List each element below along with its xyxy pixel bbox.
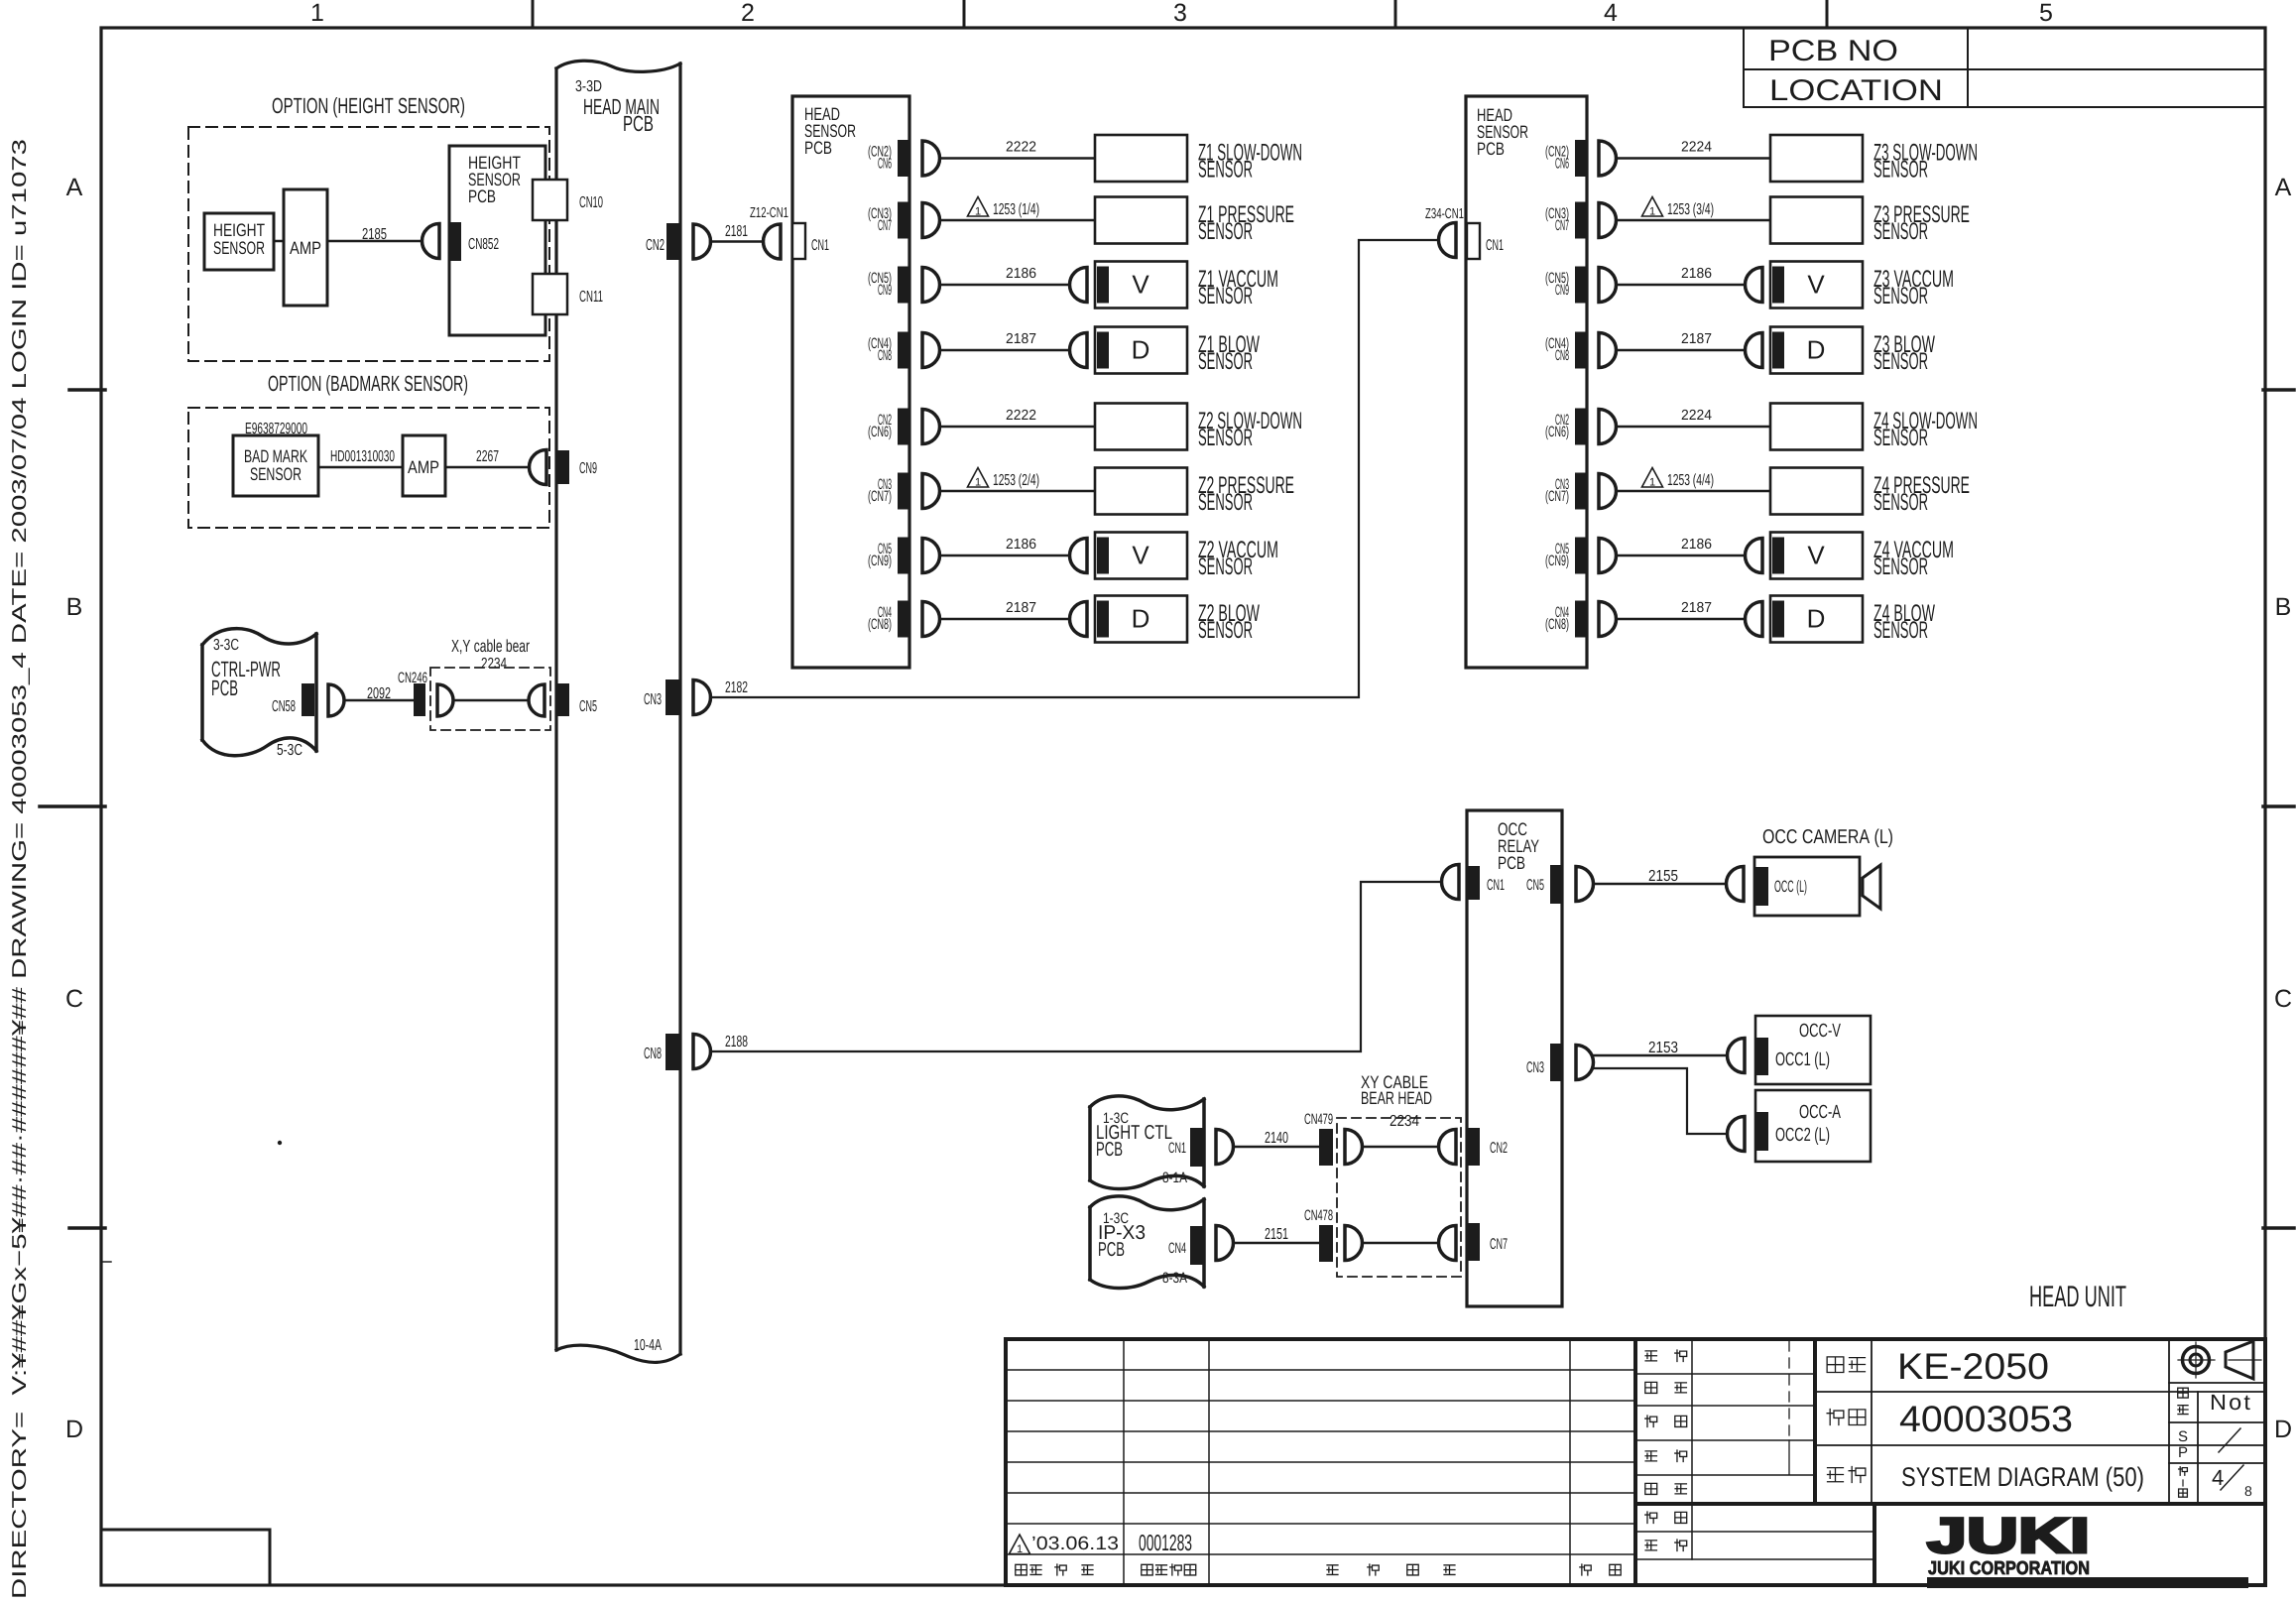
svg-text:2186: 2186	[1006, 537, 1036, 553]
svg-text:KE-2050: KE-2050	[1897, 1346, 2049, 1387]
svg-text:SENSOR: SENSOR	[1873, 283, 1928, 309]
connector plug Z4 pressure	[1599, 474, 1617, 509]
svg-text:1253 (4/4): 1253 (4/4)	[1667, 472, 1714, 489]
svg-text:4: 4	[1604, 0, 1618, 27]
svg-text:DIRECTORY= V:¥##¥Gx−5¥##·##·#: DIRECTORY= V:¥##¥Gx−5¥##·##·######¥## DR…	[9, 139, 31, 1599]
xy cable bear head 2234 box	[1337, 1072, 1461, 1277]
svg-text:HD001310030: HD001310030	[330, 448, 395, 465]
connector plug at OCC1	[1728, 1039, 1745, 1073]
label Z1 blow sensor	[1198, 331, 1260, 375]
sensor box Z4 pressure	[1770, 468, 1863, 515]
svg-text:3: 3	[1173, 0, 1187, 27]
title block approval rows	[1636, 1339, 2265, 1585]
ip-x3 pcb	[1090, 1196, 1204, 1289]
svg-text:SENSOR: SENSOR	[1198, 425, 1253, 451]
sensor box Z4 slow-down	[1770, 404, 1863, 450]
svg-text:D: D	[1807, 335, 1826, 365]
wire in cable bear	[453, 699, 529, 702]
wire 1253 (4/4) Z4 pressure	[1617, 468, 1771, 492]
label Z3 pressure sensor	[1873, 201, 1970, 245]
svg-text:V: V	[1132, 270, 1149, 300]
svg-text:SENSOR: SENSOR	[1873, 425, 1928, 451]
connector plug Z2 blow	[922, 602, 940, 637]
svg-text:8-1A: 8-1A	[1162, 1170, 1187, 1186]
connector CN1 (head sensor pcb right)	[1467, 223, 1504, 259]
svg-text:SENSOR: SENSOR	[1198, 554, 1253, 580]
title block model KE-2050	[1815, 1339, 2265, 1502]
svg-text:SENSOR: SENSOR	[1198, 283, 1253, 309]
svg-text:CN1: CN1	[1487, 877, 1505, 894]
svg-text:OCC CAMERA (L): OCC CAMERA (L)	[1762, 826, 1893, 848]
svg-text:SYSTEM DIAGRAM (50): SYSTEM DIAGRAM (50)	[1901, 1462, 2144, 1492]
svg-text:CN9: CN9	[878, 282, 892, 299]
svg-text:D: D	[2274, 1416, 2292, 1443]
svg-text:CN7: CN7	[878, 217, 892, 234]
svg-text:2186: 2186	[1681, 537, 1712, 553]
connector (CN5)/CN9 Z1 vaccum	[868, 267, 910, 304]
svg-text:A: A	[2275, 174, 2292, 201]
svg-text:1: 1	[1017, 1543, 1023, 1555]
svg-text:C: C	[2274, 985, 2292, 1013]
projection symbols	[2178, 1341, 2261, 1379]
connector plug Z2 vaccum	[922, 539, 940, 573]
svg-text:1253 (1/4): 1253 (1/4)	[993, 201, 1039, 218]
connector plug to CN852	[423, 224, 440, 259]
height sensor block	[204, 213, 274, 270]
svg-text:B: B	[66, 593, 83, 621]
wire 1253 (3/4) Z3 pressure	[1617, 197, 1771, 221]
label Z3 vaccum sensor	[1873, 266, 1954, 309]
svg-text:CN9: CN9	[579, 460, 597, 477]
svg-text:CN479: CN479	[1304, 1111, 1333, 1128]
label Z2 vaccum sensor	[1198, 537, 1278, 580]
sensor box Z4 blow	[1746, 596, 1864, 643]
connector CN5 (head main pcb)	[556, 683, 597, 716]
connector CN5/(CN9) Z4 vaccum	[1545, 538, 1588, 574]
sensor box Z1 pressure	[1095, 197, 1187, 244]
sensor box Z2 slow-down	[1095, 404, 1187, 450]
connector plug at CN3	[693, 680, 711, 715]
svg-text:AMP: AMP	[408, 457, 439, 477]
svg-text:SENSOR: SENSOR	[1198, 218, 1253, 245]
connector CN246	[398, 670, 427, 716]
connector CN1 (light ctl)	[1168, 1128, 1204, 1167]
svg-text:PCB: PCB	[468, 186, 496, 206]
ctrl-pwr pcb	[202, 629, 316, 759]
connector plug Z3 vaccum	[1599, 268, 1617, 303]
svg-text:PCB NO: PCB NO	[1768, 35, 1898, 67]
wire 2151	[1234, 1226, 1320, 1243]
svg-text:CN2: CN2	[1490, 1140, 1508, 1157]
wire 2224 Z3 slow-down	[1617, 140, 1771, 159]
svg-text:D: D	[1807, 604, 1826, 634]
connector CN3 (head main pcb)	[644, 679, 679, 715]
wire 2187 Z2 blow	[940, 600, 1070, 619]
connector CN2/(CN6) Z4 slow-down	[1545, 409, 1588, 445]
wire 2181	[710, 223, 764, 242]
svg-text:2155: 2155	[1648, 868, 1678, 885]
sensor box Z1 vaccum	[1070, 262, 1188, 308]
svg-text:CN8: CN8	[644, 1046, 662, 1062]
wire 2187 Z4 blow	[1617, 600, 1746, 619]
svg-text:1253 (3/4): 1253 (3/4)	[1667, 201, 1714, 218]
connector (CN3)/CN7 Z3 pressure	[1545, 202, 1588, 239]
svg-text:PCB: PCB	[1477, 139, 1505, 159]
svg-text:X,Y cable bear: X,Y cable bear	[451, 636, 530, 656]
sensor box Z2 vaccum	[1070, 533, 1188, 579]
svg-text:OCC-V: OCC-V	[1799, 1021, 1841, 1042]
svg-text:CN1: CN1	[1486, 237, 1504, 254]
svg-text:CN9: CN9	[1555, 282, 1569, 299]
wire HD001310030	[318, 448, 403, 467]
svg-text:CN6: CN6	[1555, 156, 1569, 173]
revision entry triangle 1 03.06.13 0001283	[1010, 1530, 1193, 1555]
label Z4 slow-down sensor	[1873, 408, 1978, 451]
amp block (badmark)	[403, 435, 445, 496]
svg-text:3-3C: 3-3C	[213, 637, 239, 654]
wire 2186 Z2 vaccum	[940, 537, 1070, 555]
sensor box Z1 blow	[1070, 327, 1188, 374]
svg-text:2140: 2140	[1265, 1130, 1288, 1147]
svg-text:CN7: CN7	[1555, 217, 1569, 234]
svg-text:S: S	[2178, 1428, 2188, 1445]
connector CN5 (occ relay)	[1526, 865, 1563, 904]
wire 2188	[710, 882, 1441, 1051]
connector plug Z3 slow-down	[1599, 141, 1617, 176]
wire 2224 Z4 slow-down	[1617, 408, 1771, 427]
svg-text:8: 8	[2244, 1483, 2252, 1499]
occ relay pcb	[1467, 810, 1562, 1306]
title block part number 40003053	[1827, 1399, 2073, 1439]
connector plug Z34-CN1	[1425, 206, 1464, 258]
svg-text:CN2: CN2	[646, 237, 665, 254]
svg-text:OPTION (BADMARK SENSOR): OPTION (BADMARK SENSOR)	[268, 371, 468, 396]
label Z1 vaccum sensor	[1198, 266, 1278, 309]
svg-text:A: A	[66, 174, 83, 201]
svg-text:2187: 2187	[1006, 600, 1036, 616]
svg-text:2267: 2267	[476, 448, 499, 465]
wire 1253 (1/4) Z1 pressure	[940, 197, 1096, 221]
svg-text:1: 1	[1649, 477, 1655, 489]
svg-text:PCB: PCB	[804, 138, 832, 158]
svg-text:PCB: PCB	[623, 111, 654, 136]
connector plug Z12-CN1	[750, 205, 788, 259]
connector CN852	[448, 222, 499, 261]
svg-text:PCB: PCB	[211, 676, 238, 700]
label Z3 blow sensor	[1873, 331, 1935, 375]
svg-text:2: 2	[741, 0, 755, 27]
occ camera (L)	[1754, 826, 1893, 916]
connector plug at CN58	[328, 684, 344, 716]
svg-text:2224: 2224	[1681, 408, 1712, 424]
height sensor pcb	[449, 146, 545, 335]
connector plug (cable bear right)	[529, 684, 544, 716]
connector plug Z1 vaccum	[922, 268, 940, 303]
svg-text:CN4: CN4	[1168, 1240, 1186, 1257]
revision table headers	[1016, 1564, 1621, 1575]
title block name SYSTEM DIAGRAM(50)	[1828, 1462, 2144, 1492]
connector plug at occ relay CN1	[1442, 865, 1460, 900]
svg-text:2151: 2151	[1265, 1226, 1288, 1243]
svg-text:Not: Not	[2210, 1390, 2252, 1415]
svg-text:BEAR HEAD: BEAR HEAD	[1361, 1088, 1432, 1108]
connector (CN4)/CN8 Z3 blow	[1545, 332, 1588, 369]
svg-text:HEIGHT: HEIGHT	[213, 220, 265, 240]
label Z3 slow-down sensor	[1873, 140, 1978, 184]
svg-text:JUKI: JUKI	[1927, 1508, 2090, 1563]
connector CN9	[556, 450, 597, 484]
sensor box Z3 vaccum	[1746, 262, 1864, 308]
wire 2186 Z4 vaccum	[1617, 537, 1746, 555]
connector CN1 (head sensor pcb left)	[792, 223, 829, 259]
connector plug at CN8	[693, 1035, 711, 1069]
title block scale/page cells	[2169, 1339, 2265, 1502]
svg-text:OCC (L): OCC (L)	[1774, 878, 1807, 896]
svg-text:2153: 2153	[1648, 1040, 1678, 1056]
svg-text:(CN8): (CN8)	[1545, 616, 1569, 633]
svg-text:5: 5	[2039, 0, 2053, 27]
connector plug at ip-x3 CN4	[1216, 1226, 1234, 1261]
head main pcb	[556, 61, 680, 1362]
svg-text:SENSOR: SENSOR	[1198, 348, 1253, 375]
svg-text:0001283: 0001283	[1139, 1530, 1192, 1555]
svg-text:B: B	[2275, 593, 2292, 621]
wire 1253 (2/4) Z2 pressure	[940, 468, 1096, 492]
connector CN4 (ip-x3)	[1168, 1226, 1204, 1265]
label Z4 vaccum sensor	[1873, 537, 1954, 580]
svg-text:2222: 2222	[1006, 140, 1036, 156]
svg-text:CN852: CN852	[468, 236, 499, 253]
wire 2092	[344, 685, 414, 702]
svg-text:2222: 2222	[1006, 408, 1036, 424]
svg-text:2224: 2224	[1681, 140, 1712, 156]
head sensor pcb (right)	[1466, 96, 1587, 668]
label Z1 pressure sensor	[1198, 201, 1294, 245]
svg-text:V: V	[1807, 541, 1825, 570]
sensor box Z2 pressure	[1095, 468, 1187, 515]
sensor box Z4 vaccum	[1746, 533, 1864, 579]
svg-text:2186: 2186	[1006, 266, 1036, 282]
label Z4 blow sensor	[1873, 600, 1935, 644]
svg-text:SENSOR: SENSOR	[1198, 617, 1253, 644]
svg-text:1: 1	[310, 0, 324, 27]
connector plug at light ctl CN1	[1216, 1130, 1234, 1165]
connector CN1 (occ relay)	[1467, 866, 1505, 900]
connector CN4/(CN8) Z2 blow	[868, 601, 910, 638]
svg-text:SENSOR: SENSOR	[1873, 157, 1928, 184]
occ-a box OCC2 (L)	[1755, 1090, 1871, 1162]
svg-text:CN478: CN478	[1304, 1207, 1333, 1224]
svg-text:PCB: PCB	[1098, 1239, 1125, 1261]
svg-text:1253 (2/4): 1253 (2/4)	[993, 472, 1039, 489]
connector plug (bear head row2 right)	[1439, 1226, 1457, 1261]
connector CN2 (occ relay)	[1467, 1128, 1508, 1166]
svg-text:CN3: CN3	[644, 691, 662, 708]
connector plug (bear head row2 left)	[1345, 1226, 1363, 1261]
svg-text:(CN8): (CN8)	[868, 616, 892, 633]
wire 2187 Z1 blow	[940, 331, 1070, 350]
svg-text:C: C	[65, 985, 83, 1013]
bad mark sensor block E9638729000	[233, 421, 318, 496]
title block revision table	[1006, 1339, 2265, 1585]
connector plug at occ camera	[1727, 867, 1745, 902]
head sensor pcb (left)	[792, 96, 909, 668]
svg-text:(CN6): (CN6)	[1545, 424, 1569, 440]
svg-text:PCB: PCB	[1096, 1139, 1123, 1161]
svg-text:V: V	[1132, 541, 1149, 570]
svg-text:OCC2 (L): OCC2 (L)	[1775, 1125, 1830, 1146]
amp block (height sensor)	[284, 189, 327, 306]
juki corporation logo	[1927, 1508, 2248, 1588]
wire 2182	[710, 240, 1438, 697]
wire 2187 Z3 blow	[1617, 331, 1746, 350]
PCB NO / LOCATION table	[1744, 28, 2265, 107]
svg-text:(CN7): (CN7)	[868, 488, 892, 505]
svg-text:OPTION (HEIGHT SENSOR): OPTION (HEIGHT SENSOR)	[272, 93, 465, 118]
svg-text:40003053: 40003053	[1899, 1399, 2073, 1439]
wire 2186 Z3 vaccum	[1617, 266, 1746, 285]
occ-v box OCC1 (L)	[1755, 1016, 1871, 1084]
label Z2 slow-down sensor	[1198, 408, 1302, 451]
svg-text:CN6: CN6	[878, 156, 892, 173]
svg-text:2234: 2234	[1390, 1113, 1419, 1130]
connector plug Z2 slow-down	[922, 410, 940, 444]
label Z2 pressure sensor	[1198, 472, 1294, 516]
svg-text:4: 4	[2212, 1465, 2224, 1490]
svg-text:5-3C: 5-3C	[277, 742, 302, 759]
X,Y cable bear 2234 box	[430, 636, 550, 730]
svg-text:(CN7): (CN7)	[1545, 488, 1569, 505]
label Z1 slow-down sensor	[1198, 140, 1302, 184]
svg-text:V: V	[1807, 270, 1825, 300]
svg-text:1: 1	[1649, 206, 1655, 218]
svg-text:(CN9): (CN9)	[1545, 553, 1569, 569]
svg-text:2182: 2182	[725, 679, 748, 696]
svg-text:SENSOR: SENSOR	[1198, 157, 1253, 184]
svg-text:(CN9): (CN9)	[868, 553, 892, 569]
label Z2 blow sensor	[1198, 600, 1260, 644]
svg-text:Z34-CN1: Z34-CN1	[1425, 206, 1464, 222]
connector CN11	[533, 274, 603, 314]
connector plug Z1 pressure	[922, 203, 940, 238]
svg-text:2185: 2185	[362, 226, 387, 243]
svg-text:AMP: AMP	[290, 238, 321, 258]
light ctl pcb	[1090, 1096, 1204, 1189]
svg-text:HEAD UNIT: HEAD UNIT	[2029, 1281, 2126, 1313]
svg-text:2187: 2187	[1006, 331, 1036, 347]
svg-text:D: D	[1132, 335, 1150, 365]
connector plug at OCC2	[1728, 1117, 1745, 1152]
connector CN5/(CN9) Z2 vaccum	[868, 538, 910, 574]
svg-text:CN1: CN1	[811, 237, 829, 254]
connector CN3/(CN7) Z2 pressure	[868, 473, 910, 510]
connector plug at CN2	[693, 224, 711, 259]
sensor box Z2 blow	[1070, 596, 1188, 643]
svg-text:1: 1	[975, 477, 981, 489]
svg-text:10-4A: 10-4A	[634, 1337, 662, 1354]
svg-text:CN10: CN10	[579, 194, 603, 211]
connector plug Z3 blow	[1599, 333, 1617, 368]
connector plug Z4 slow-down	[1599, 410, 1617, 444]
svg-text:CN5: CN5	[1526, 877, 1544, 894]
svg-text:D: D	[65, 1416, 83, 1443]
connector plug Z1 slow-down	[922, 141, 940, 176]
svg-text:SENSOR: SENSOR	[1873, 554, 1928, 580]
connector CN478	[1304, 1207, 1333, 1262]
connector CN10	[533, 180, 603, 220]
connector CN2 (head main pcb)	[646, 223, 679, 260]
svg-text:2187: 2187	[1681, 331, 1712, 347]
connector plug at occ relay CN3	[1576, 1046, 1594, 1080]
svg-text:1: 1	[975, 206, 981, 218]
svg-text:CN11: CN11	[579, 289, 603, 306]
svg-text:SENSOR: SENSOR	[1873, 617, 1928, 644]
svg-text:2092: 2092	[367, 685, 391, 702]
connector CN58	[272, 683, 314, 716]
svg-text:SENSOR: SENSOR	[1198, 489, 1253, 516]
wire bear head row1	[1363, 1146, 1439, 1149]
svg-text:2188: 2188	[725, 1034, 748, 1050]
svg-text:BAD MARK: BAD MARK	[244, 446, 307, 466]
option badmark sensor group box	[188, 371, 549, 528]
svg-text:CN3: CN3	[1526, 1059, 1544, 1076]
svg-text:3-3D: 3-3D	[575, 78, 602, 95]
svg-text:SENSOR: SENSOR	[213, 238, 265, 258]
svg-text:SENSOR: SENSOR	[1873, 348, 1928, 375]
wire bear head row2	[1363, 1242, 1439, 1245]
connector CN7 (occ relay)	[1467, 1223, 1508, 1261]
svg-text:SENSOR: SENSOR	[250, 464, 302, 484]
svg-text:CN7: CN7	[1490, 1236, 1508, 1253]
connector plug (bear head row1 right)	[1439, 1130, 1457, 1165]
svg-text:JUKI CORPORATION: JUKI CORPORATION	[1928, 1558, 2090, 1579]
connector CN4/(CN8) Z4 blow	[1545, 601, 1588, 638]
svg-text:CN5: CN5	[579, 698, 597, 715]
wire height sensor to amp	[274, 240, 284, 243]
label Z4 pressure sensor	[1873, 472, 1970, 516]
sensor box Z3 pressure	[1770, 197, 1863, 244]
connector CN3 (occ relay)	[1526, 1044, 1563, 1081]
wire 2153	[1594, 1040, 1728, 1134]
wire 2222 Z1 slow-down	[940, 140, 1096, 159]
connector plug at occ relay CN5	[1576, 867, 1594, 902]
svg-text:’03.06.13: ’03.06.13	[1031, 1534, 1119, 1554]
sensor box Z3 slow-down	[1770, 135, 1863, 182]
connector plug Z1 blow	[922, 333, 940, 368]
svg-text:CN58: CN58	[272, 698, 296, 715]
sensor box Z3 blow	[1746, 327, 1864, 374]
connector plug Z4 blow	[1599, 602, 1617, 637]
connector plug Z3 pressure	[1599, 203, 1617, 238]
svg-text:CN1: CN1	[1168, 1140, 1186, 1157]
connector (CN2)/CN6 Z1 slow-down	[868, 140, 910, 177]
wire 2186 Z1 vaccum	[940, 266, 1070, 285]
sensor box Z1 slow-down	[1095, 135, 1187, 182]
connector plug to CN9	[530, 450, 547, 485]
svg-text:SENSOR: SENSOR	[1873, 218, 1928, 245]
svg-text:P: P	[2178, 1444, 2188, 1461]
connector (CN4)/CN8 Z1 blow	[868, 332, 910, 369]
svg-text:OCC1 (L): OCC1 (L)	[1775, 1049, 1830, 1070]
svg-text:OCC-A: OCC-A	[1799, 1102, 1841, 1123]
connector CN3/(CN7) Z4 pressure	[1545, 473, 1588, 510]
wire 2155	[1594, 868, 1727, 885]
connector CN8 (head main pcb)	[644, 1034, 679, 1070]
svg-text:PCB: PCB	[1498, 853, 1525, 873]
connector (CN3)/CN7 Z1 pressure	[868, 202, 910, 239]
svg-text:D: D	[1132, 604, 1150, 634]
wire 2267	[445, 448, 530, 467]
